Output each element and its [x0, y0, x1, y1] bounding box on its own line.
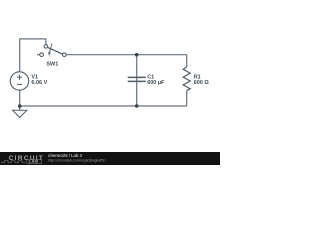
junction dot at V1 bottom [18, 104, 22, 108]
top plate [128, 76, 146, 78]
footer bar [0, 152, 220, 165]
wire stub left throw [37, 54, 40, 56]
svg-text:600 Ω: 600 Ω [194, 80, 210, 86]
wire bottom rail [20, 105, 187, 107]
svg-text:LAB: LAB [29, 159, 39, 164]
bottom plate [128, 80, 146, 82]
logo waveform [1, 161, 25, 163]
switch SW1 [37, 44, 66, 57]
wire to resistor top [186, 55, 188, 67]
capacitor C1 [128, 55, 146, 106]
wire from V1 top up and right to switch [20, 39, 46, 72]
switch lever [47, 47, 62, 54]
wire top rail [66, 54, 186, 56]
svg-text:chenno25 / Lab 3: chenno25 / Lab 3 [48, 153, 83, 158]
voltage source V1 [10, 72, 28, 90]
ground [13, 106, 27, 117]
wire V1 bottom to ground junction [19, 90, 21, 106]
zigzag [183, 67, 190, 90]
switch right terminal [63, 53, 67, 57]
switch left terminal [40, 53, 44, 57]
logo LAB box [27, 159, 42, 163]
wire resistor bottom to rail [186, 90, 188, 106]
svg-text:http://circuitlab.com/csgk3bkg: http://circuitlab.com/csgk3bkgkaf5b [48, 159, 105, 163]
minus sign [17, 83, 22, 85]
switch top terminal [44, 45, 48, 49]
svg-text:6.06 V: 6.06 V [31, 80, 47, 86]
junction dot cap bottom [135, 104, 139, 108]
wire cap branch [136, 55, 138, 106]
plus sign [17, 76, 22, 78]
resistor R1 [183, 55, 190, 106]
switch actuator arrow [50, 44, 52, 53]
svg-text:SW1: SW1 [46, 61, 58, 67]
junction dot cap top [135, 53, 139, 57]
svg-text:600 µF: 600 µF [147, 80, 165, 86]
